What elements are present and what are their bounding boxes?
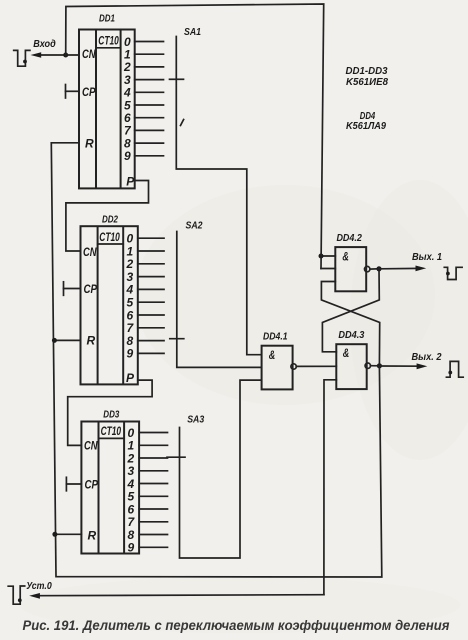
svg-text:9: 9: [127, 541, 134, 555]
wire Уст.0 arrow line to DD4.3 input 3: [29, 380, 336, 599]
svg-text:SA3: SA3: [187, 414, 204, 426]
junction node at DD2.R: [52, 338, 57, 343]
svg-text:CN: CN: [83, 245, 97, 259]
wire DD2.P to DD3.CN: [68, 380, 152, 445]
svg-text:CP: CP: [85, 478, 99, 492]
svg-text:R: R: [88, 528, 97, 542]
gate DD4.2 (3-input NAND) body: [335, 247, 370, 291]
svg-text:CN: CN: [84, 439, 98, 453]
DD1 output stub wires 0-9: [135, 42, 164, 156]
svg-text:Рис. 191. Делитель с переключа: Рис. 191. Делитель с переключаемым коэфф…: [23, 618, 450, 633]
svg-text:&: &: [342, 250, 349, 264]
gate DD4.1 (3-input NAND) body: [262, 346, 297, 390]
switch SA2 common wire (to DD4.1 input 2): [177, 232, 262, 368]
svg-text:CP: CP: [84, 282, 98, 296]
svg-text:SA2: SA2: [186, 219, 203, 231]
svg-text:&: &: [343, 346, 350, 360]
Вход waveform symbol (negative pulse): [14, 50, 30, 66]
gate DD4.3 (3-input NAND) body: [336, 344, 370, 389]
svg-text:&: &: [269, 348, 276, 362]
svg-text:SA1: SA1: [184, 26, 201, 38]
wire Вых.2 output arrow: [379, 363, 427, 369]
DD3 output pin labels 0-9: [126, 426, 135, 555]
svg-text:DD1: DD1: [99, 13, 115, 25]
DD2 output pin labels 0-9: [125, 232, 134, 361]
Уст.0 waveform symbol (negative pulse): [8, 586, 25, 604]
svg-text:9: 9: [124, 149, 131, 163]
svg-text:CT10: CT10: [98, 36, 119, 48]
junction node at DD4.2 input 1: [319, 254, 324, 259]
svg-text:DD4.2: DD4.2: [336, 232, 362, 244]
wire DD1.P to DD2.CN: [66, 181, 149, 252]
wire Вых.1 output arrow: [379, 266, 426, 272]
svg-text:DD2: DD2: [102, 214, 118, 226]
DD2 output stub wires 0-9: [138, 238, 164, 353]
svg-text:Вых. 1: Вых. 1: [412, 251, 442, 263]
DD3 CP stub terminator: [66, 477, 81, 491]
junction node at DD4.3 output (Вых.2 net): [377, 363, 382, 368]
svg-text:CT10: CT10: [99, 232, 120, 244]
counter DD1 (K561ИЕ8) body: [79, 30, 135, 189]
wire R net: DD1.R down left side, across bottom, up to DD4.3 output: [51, 143, 382, 577]
junction node at DD4.2 output (Вых.1 net): [376, 266, 381, 271]
DD1 output pin labels 0-9: [123, 35, 132, 163]
wire DD4.1 output to DD4.3 input 2: [296, 365, 336, 367]
junction node at DD3.R: [52, 532, 57, 537]
Вых.1 waveform symbol (negative pulse): [444, 267, 462, 279]
switch SA1 selected contact bar (output 3): [170, 78, 184, 80]
svg-text:Вход: Вход: [33, 38, 56, 50]
svg-text:P: P: [126, 175, 135, 189]
svg-text:DD1-DD3: DD1-DD3: [346, 66, 388, 77]
counter DD3 (K561ИЕ8) body: [81, 422, 139, 554]
svg-text:DD3: DD3: [103, 409, 119, 421]
Вых.2 waveform symbol (positive pulse): [446, 361, 463, 377]
switch SA3 selected contact bar (output 2): [167, 456, 185, 458]
svg-text:K561ЛА9: K561ЛА9: [346, 121, 386, 132]
wire DD4.2 input stubs 1-2 from Вход net: [321, 256, 335, 269]
svg-text:R: R: [87, 333, 96, 347]
svg-text:Уст.0: Уст.0: [26, 580, 52, 592]
svg-text:CT10: CT10: [101, 426, 122, 438]
switch SA1 common wire (to DD4.1 input 1): [176, 37, 261, 355]
wire DD3.R stub: [55, 533, 82, 535]
switch SA2 selected contact bar (output 8): [170, 338, 184, 340]
svg-text:P: P: [126, 371, 135, 385]
svg-text:R: R: [85, 136, 94, 150]
svg-text:Вых. 2: Вых. 2: [412, 351, 442, 363]
wire DD2.R stub: [54, 339, 80, 341]
wire DD4.3 output to junction: [371, 365, 380, 367]
svg-text:DD4.3: DD4.3: [338, 329, 364, 341]
wire Вход net up and across top to DD4.2 inputs: [66, 4, 324, 269]
wire Вход arrow into DD1.CN: [31, 52, 80, 58]
wire DD4.2 output to junction and cross-couple down to DD4.3 input 1: [322, 269, 379, 352]
switch SA1 wiper tick: [181, 120, 184, 126]
switch SA3 common wire (to DD4.1 input 3): [180, 380, 262, 558]
counter DD2 (K561ИЕ8) body: [81, 226, 138, 384]
svg-text:K561ИЕ8: K561ИЕ8: [346, 77, 388, 88]
svg-text:CN: CN: [82, 47, 96, 61]
DD2 CP stub terminator: [64, 282, 81, 296]
DD3 output stub wires 0-9: [139, 433, 167, 548]
DD1 CP stub terminator: [66, 85, 80, 99]
junction node at DD1.CN: [63, 53, 68, 58]
svg-text:9: 9: [126, 347, 133, 361]
wire DD4.2 input 3 cross-couple to DD4.3 output junction: [321, 282, 379, 366]
svg-text:DD4.1: DD4.1: [263, 331, 288, 343]
svg-text:CP: CP: [82, 85, 96, 99]
